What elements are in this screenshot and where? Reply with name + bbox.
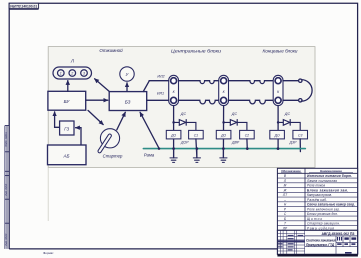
branch 2 box A [216, 130, 231, 139]
wire AB to GZ [76, 128, 81, 145]
branch 1 box B [189, 130, 204, 139]
svg-text:С1: С1 [194, 134, 198, 138]
dense row in left grid [278, 240, 305, 242]
right end loop [283, 79, 312, 102]
branch 2 box B wire to bus [246, 139, 248, 150]
rail links unit2-unit3 (lower, with dips) [229, 100, 274, 104]
branch 3 box A [270, 130, 285, 139]
block BZ (ignition unit) [109, 92, 147, 111]
svg-text:Блоки розжига доп.: Блоки розжига доп. [307, 212, 338, 216]
branch 2 box B [240, 130, 255, 139]
svg-text:ДС: ДС [284, 112, 291, 116]
svg-text:Щиток: Щиток [307, 217, 322, 221]
svg-text:АВГД.453661.002 ПЗ: АВГД.453661.002 ПЗ [322, 232, 356, 236]
svg-text:Б: Б [284, 217, 286, 221]
wire starter to BZ [117, 112, 126, 130]
branch 2 diode DS [224, 120, 247, 131]
branch 3 diode DS [278, 120, 300, 131]
branch 1 diode DS [174, 120, 196, 131]
doc code cell [305, 235, 358, 237]
svg-text:2: 2 [70, 71, 73, 75]
branch 3 vertical wire [277, 106, 279, 150]
branch 1 box B wire to bus/ground [196, 139, 197, 158]
branch 1 vertical wire [173, 106, 175, 158]
svg-text:ДС: ДС [231, 112, 238, 116]
rail links unit1-unit2 (lower, with dips) [179, 100, 219, 104]
svg-text:–: – [283, 198, 286, 202]
block AB (battery) [48, 145, 87, 165]
svg-text:Инв. дубл.: Инв. дубл. [4, 183, 8, 196]
svg-text:ДО: ДО [220, 134, 226, 138]
title block [43, 230, 358, 255]
wire upper rail from BZ [143, 81, 169, 92]
branch 3 box B wire to bus end [299, 139, 301, 152]
branch 1 node [172, 121, 175, 124]
branch 3 box B [293, 130, 308, 139]
svg-text:ДС: ДС [180, 112, 187, 116]
left margin strip [5, 126, 9, 249]
wire BU to lamp cluster [67, 81, 69, 92]
svg-text:С2: С2 [245, 134, 249, 138]
wire BU to starter [88, 110, 103, 124]
wire GZ to BU [55, 112, 60, 127]
wire BZ to U [126, 83, 128, 92]
frame bus (teal) [143, 148, 305, 150]
svg-text:ДЗР: ДЗР [289, 141, 298, 145]
rail links unit2-unit3 (upper, with dips) [229, 81, 274, 84]
igniter unit 1 [169, 75, 179, 105]
svg-text:Свечи запальные камер сгор.: Свечи запальные камер сгор. [307, 203, 355, 207]
svg-text:ДВР: ДВР [231, 141, 240, 145]
bus junction nodes [158, 147, 280, 150]
schematic panel background [48, 47, 315, 168]
svg-text:ИвГПУ.240100.01: ИвГПУ.240100.01 [10, 5, 37, 9]
svg-text:Блоки зажигания зам.: Блоки зажигания зам. [307, 188, 348, 192]
svg-text:ДО: ДО [170, 134, 176, 138]
wire lower rail from BZ [147, 99, 169, 101]
svg-text:Принципиальн. ГТД: Принципиальн. ГТД [306, 243, 335, 247]
wire BZ to lamp cluster (diagonal) [95, 79, 110, 92]
svg-text:Источник питания борт.: Источник питания борт. [307, 174, 352, 178]
branch 2 vertical wire [222, 106, 224, 158]
svg-text:Рама: Рама [144, 153, 155, 158]
svg-text:АБ: АБ [62, 153, 69, 158]
svg-text:ГЗ: ГЗ [64, 126, 69, 131]
block GZ (small box) [60, 121, 74, 135]
svg-text:Лампа сигнальная: Лампа сигнальная [306, 179, 337, 183]
branch 2 node [222, 121, 225, 124]
svg-text:ДО: ДО [274, 134, 280, 138]
svg-text:ИЛ1: ИЛ1 [157, 92, 164, 96]
svg-text:Отжимной: Отжимной [99, 47, 123, 53]
lamp cluster L (stadium with 3 signal lamps) [53, 67, 92, 79]
block BU (control unit) [48, 91, 86, 110]
wire frame-bus to BZ [140, 112, 159, 148]
starter crank symbol [98, 129, 120, 153]
svg-text:Реле токов: Реле токов [307, 184, 325, 188]
svg-text:С3: С3 [298, 134, 302, 138]
svg-text:ИЛ2: ИЛ2 [157, 75, 164, 79]
svg-text:Стартер авиацион.: Стартер авиацион. [307, 222, 340, 226]
svg-text:Реле включения зар.: Реле включения зар. [307, 207, 340, 211]
svg-text:1: 1 [60, 71, 62, 75]
wire BU to BZ [86, 99, 108, 101]
svg-text:Инв. подл.: Инв. подл. [4, 233, 8, 246]
svg-text:Подп. дата: Подп. дата [4, 132, 8, 147]
svg-text:Формат: Формат [43, 251, 54, 255]
svg-text:БЗ: БЗ [125, 100, 131, 105]
svg-text:Разъём каб.: Разъём каб. [307, 198, 327, 202]
svg-text:ДОР: ДОР [180, 141, 189, 145]
branch 1 box A [166, 130, 181, 139]
ground 2 [193, 149, 200, 162]
svg-text:Центральные блоки: Центральные блоки [171, 48, 221, 53]
left grid columns [277, 230, 304, 254]
igniter unit 3 [273, 75, 283, 105]
parts table [277, 168, 357, 230]
ground 3 [220, 149, 227, 162]
svg-text:М: М [284, 184, 287, 188]
svg-text:Концевые блоки: Концевые блоки [263, 49, 298, 54]
indicator U (circle) [120, 67, 134, 81]
right cells [305, 236, 358, 254]
svg-text:Стартер: Стартер [103, 154, 123, 159]
rail links unit1-unit2 (upper, with dips) [179, 81, 219, 84]
svg-text:Катушка пусков.: Катушка пусков. [307, 193, 332, 197]
igniter unit 2 [219, 75, 229, 105]
svg-text:3: 3 [83, 71, 85, 75]
branch 3 node [277, 121, 280, 124]
top-left stamp box [9, 3, 38, 9]
ground 1 [170, 149, 177, 162]
